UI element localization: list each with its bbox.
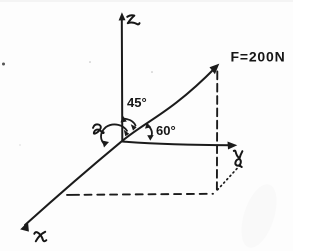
label x bbox=[34, 232, 46, 242]
dashed vertical projection line bbox=[216, 72, 218, 190]
label z bbox=[127, 15, 139, 24]
force F line bbox=[122, 68, 216, 142]
label y bbox=[234, 151, 243, 167]
F arrowhead bbox=[210, 64, 220, 75]
svg-text:F=200N: F=200N bbox=[231, 49, 286, 65]
60 arc arrowheads bbox=[145, 123, 151, 129]
svg-text:45°: 45° bbox=[127, 95, 147, 110]
dashed horizontal projection line bbox=[67, 194, 213, 195]
label alpha bbox=[93, 124, 101, 133]
z axis arrowhead bbox=[119, 12, 126, 20]
x axis wire bbox=[25, 141, 122, 225]
alpha arc bbox=[101, 124, 127, 144]
z axis wire bbox=[121, 17, 124, 141]
dotted diagonal projection line bbox=[218, 163, 243, 190]
y axis arrowhead bbox=[228, 142, 238, 150]
alpha arc arrowheads bbox=[102, 141, 109, 148]
y axis wire bbox=[122, 142, 232, 146]
45 deg arc bbox=[123, 119, 135, 126]
60 deg arc bbox=[148, 126, 152, 137]
45 arc arrowheads bbox=[121, 116, 127, 123]
svg-text:60°: 60° bbox=[156, 123, 176, 138]
x axis arrowhead bbox=[20, 222, 29, 232]
